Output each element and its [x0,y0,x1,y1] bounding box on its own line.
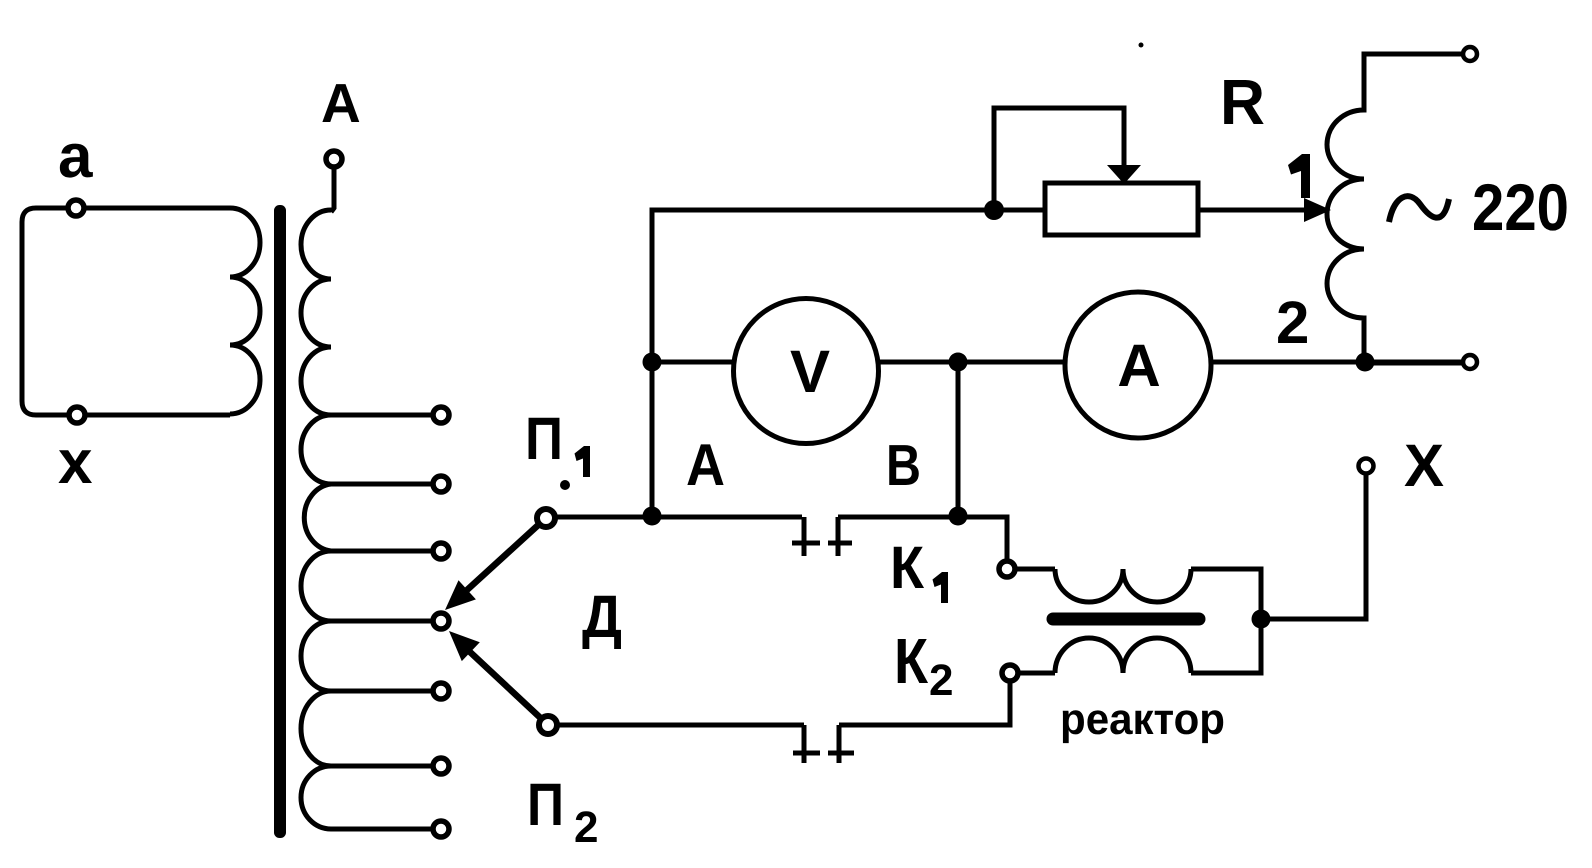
wire: tap 4 (middle) [331,619,433,624]
wire: rheostat loop [994,108,1124,210]
wire: rheostat to autotransformer with arrow [1198,208,1306,213]
terminal x [69,407,85,423]
wire: stub from terminal A to secondary winding [331,167,334,212]
wire: tap 6 [331,764,433,769]
svg-text:К: К [890,534,924,601]
wire: selector arm from P1 [467,525,539,590]
tap terminal 1 [433,407,449,423]
ammeter A circle [1065,292,1211,438]
arrowhead of selector arm 1 [445,580,476,610]
winding: transformer secondary with taps [301,210,331,829]
svg-text:220: 220 [1472,170,1569,244]
wire: selector arm from P2 [470,652,541,718]
wire: reactor lower coil lead [1018,671,1055,676]
voltmeter V circle [734,299,879,444]
svg-text:К: К [894,625,929,697]
svg-text:V: V [790,338,830,405]
winding: reactor upper [1055,569,1191,602]
svg-text:A: A [686,432,725,498]
contact K1 [792,517,852,556]
contact K2 [793,725,854,763]
terminal A (secondary top) [326,151,342,167]
tap terminal 6 [433,758,449,774]
node A junction [643,507,662,526]
wire: reactor lower to junction [1191,619,1261,673]
terminal X [1359,459,1374,474]
node junction rheostat loop [984,200,1004,220]
svg-text:X: X [1404,432,1444,499]
svg-text:реактор: реактор [1060,695,1225,744]
svg-text:B: B [886,433,921,498]
supply terminal top [1463,47,1477,61]
wiper arrow of rheostat [1107,165,1141,184]
wire: node B to K1 circle [838,517,1007,561]
supply terminal bottom [1463,355,1477,369]
svg-text:a: a [58,122,93,191]
tap terminal 5 [433,683,449,699]
node junction V-B top [949,353,968,372]
label 1 [1288,154,1310,198]
wire: junction to X terminal [1261,474,1366,619]
svg-text:x: x [58,428,93,497]
wire: tap 2 [331,482,433,487]
contact terminal K2 [1002,665,1018,681]
wire: tap 3 [331,549,433,554]
wire: vertical feeder x=652 [652,210,1045,516]
svg-text:A: A [1117,332,1160,399]
wire: tap 5 [331,689,433,694]
stray speck [1139,43,1144,48]
svg-text:П: П [527,771,564,838]
svg-text:R: R [1220,66,1265,138]
node junction reactor output [1252,610,1271,629]
tap terminal 7 [433,821,449,837]
wire: P2 branch [558,723,804,728]
svg-text:2: 2 [1276,289,1309,356]
svg-text:Д: Д [582,583,622,650]
node B junction [949,507,968,526]
wire: voltmeter row [652,360,1463,365]
wire: tap 7 (bottom) [331,827,433,832]
wire: vertical node B [956,362,961,516]
wire: tap 1 [331,413,433,418]
tap terminal 4 [433,613,449,629]
wire: primary short-circuit loop a-x [22,208,230,415]
label ~ (AC) [1389,196,1449,222]
winding: transformer primary (a-x) [230,208,260,414]
svg-text:A: A [321,72,361,134]
arrowhead of selector arm 2 [449,631,480,661]
core: reactor core bar [1053,613,1199,626]
tap terminal 3 [433,543,449,559]
node junction autotransformer bottom [1356,353,1375,372]
svg-text:2: 2 [574,803,598,852]
svg-text:П: П [525,405,563,472]
node junction at feeder/V row [643,353,662,372]
wire: P1 branch to node A [556,515,802,520]
core: transformer magnetic core [274,205,286,838]
svg-text:2: 2 [929,656,953,705]
pivot P2 [539,716,557,734]
wire: K2 branch right and up to K2 circle [839,681,1010,725]
resistor R (rheostat body) [1045,183,1198,235]
wire: reactor upper coil lead [1015,567,1055,572]
stray dot of P1 label [560,480,570,490]
winding: autotransformer ~220 [1327,54,1463,363]
pivot P1 [537,509,555,527]
contact terminal K1 [999,561,1015,577]
terminal a [68,200,84,216]
winding: reactor lower [1055,638,1191,673]
arrowhead into autotransformer [1304,198,1331,222]
tap terminal 2 [433,476,449,492]
wire: reactor upper to junction [1191,569,1261,619]
